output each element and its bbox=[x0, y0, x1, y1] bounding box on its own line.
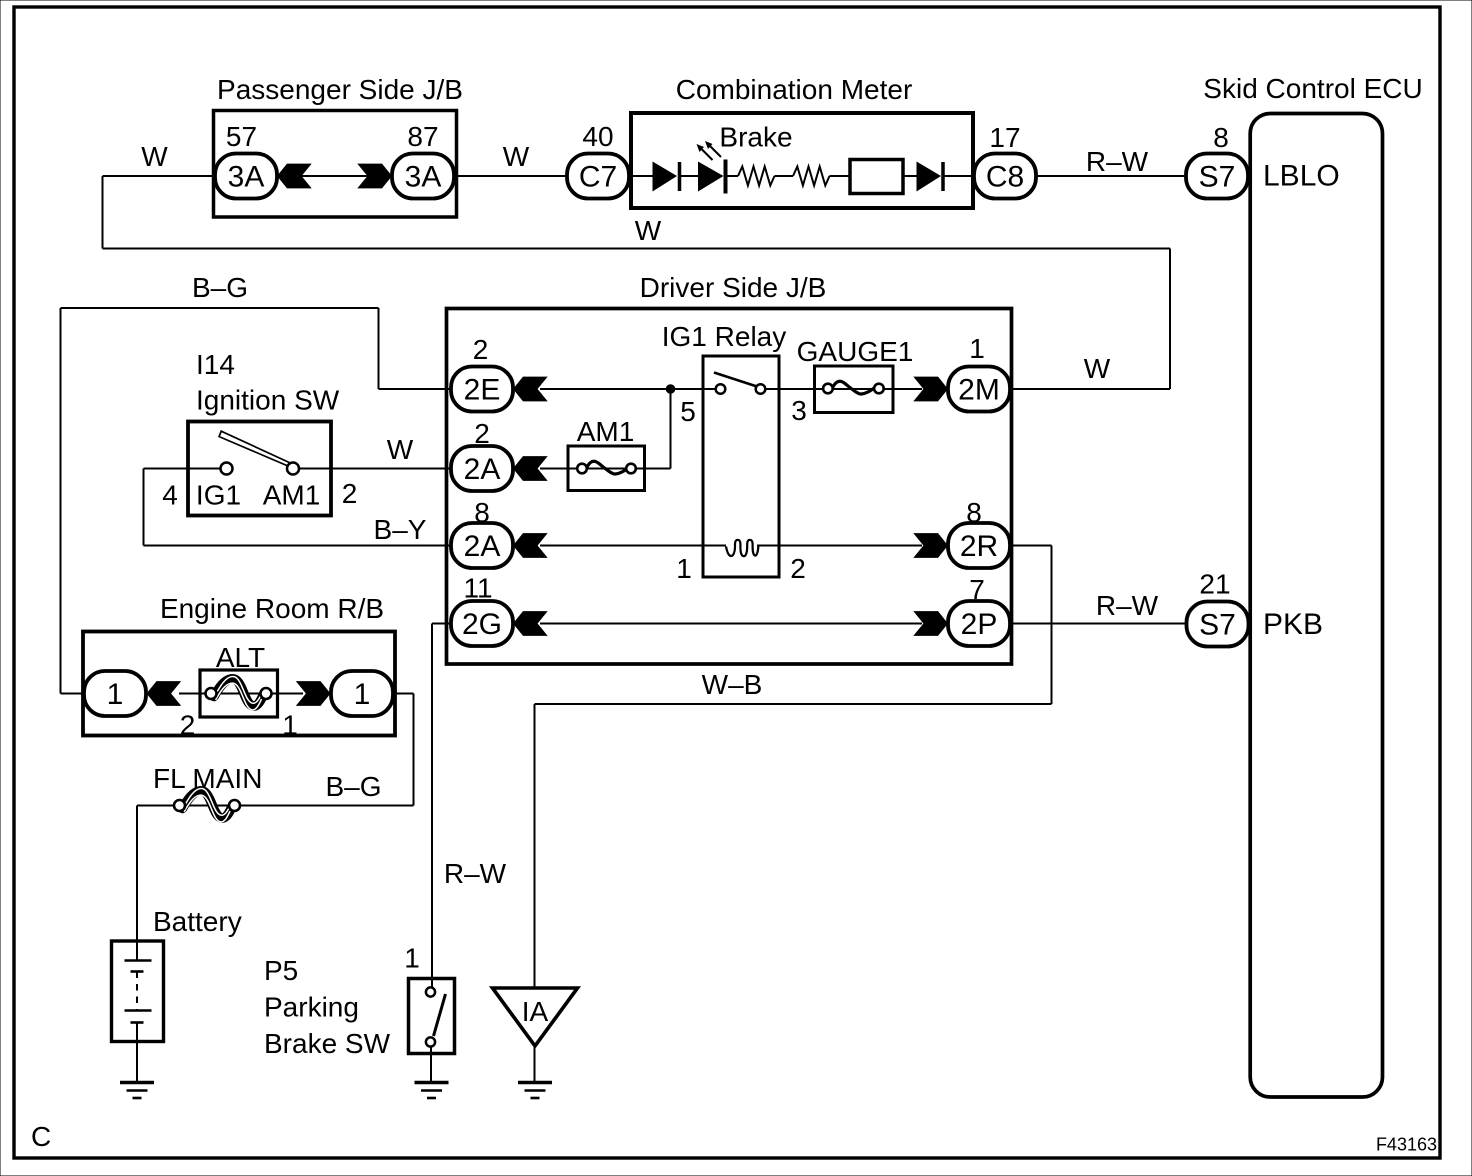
svg-text:1: 1 bbox=[676, 553, 692, 584]
junction node at pin5 feed bbox=[666, 385, 675, 394]
connector C7 bbox=[567, 154, 629, 199]
svg-text:AM1: AM1 bbox=[577, 416, 635, 447]
svg-text:11: 11 bbox=[463, 573, 492, 604]
fusible link ALT bbox=[200, 642, 278, 717]
wire B-Y: ignition IG1 to 2A-8 bbox=[144, 469, 452, 546]
svg-text:2A: 2A bbox=[464, 530, 501, 563]
svg-text:Driver Side J/B: Driver Side J/B bbox=[640, 272, 827, 303]
svg-text:Passenger Side J/B: Passenger Side J/B bbox=[217, 74, 463, 105]
svg-text:1: 1 bbox=[354, 678, 371, 711]
arrow into 2A-8 bbox=[513, 533, 548, 558]
svg-text:2: 2 bbox=[180, 710, 196, 741]
svg-text:Brake: Brake bbox=[719, 122, 792, 153]
wire C8 to S7 bbox=[1036, 175, 1186, 177]
svg-text:W: W bbox=[141, 141, 168, 172]
connector 2P bbox=[948, 601, 1010, 646]
svg-text:C7: C7 bbox=[579, 161, 617, 194]
svg-text:Ignition SW: Ignition SW bbox=[196, 385, 340, 416]
wire between 3A connectors bbox=[300, 175, 370, 177]
svg-text:GAUGE1: GAUGE1 bbox=[797, 336, 914, 367]
ECU box: Skid Control ECU bbox=[1203, 73, 1422, 1097]
ground connector IA bbox=[493, 988, 578, 1046]
svg-text:Combination Meter: Combination Meter bbox=[676, 74, 913, 105]
wire relay coil pin 2 to 2R bbox=[779, 545, 922, 547]
ground (parking brake) bbox=[415, 1083, 449, 1099]
svg-text:1: 1 bbox=[282, 710, 298, 741]
svg-text:40: 40 bbox=[582, 121, 613, 152]
svg-text:2: 2 bbox=[342, 478, 358, 509]
svg-text:2M: 2M bbox=[958, 374, 1000, 407]
battery bbox=[112, 906, 242, 1042]
connector 1 (engine room R/B left) bbox=[84, 671, 146, 716]
svg-text:1: 1 bbox=[404, 943, 420, 974]
wire W-B: 2R to IA ground connector bbox=[535, 546, 1052, 987]
svg-text:R–W: R–W bbox=[1096, 590, 1159, 621]
svg-text:21: 21 bbox=[1199, 569, 1230, 600]
arrow into 3A-57 bbox=[277, 164, 312, 189]
svg-text:S7: S7 bbox=[1199, 609, 1236, 642]
connector C8 bbox=[974, 154, 1036, 199]
svg-text:F43163: F43163 bbox=[1376, 1135, 1437, 1155]
connector 2E bbox=[451, 367, 513, 412]
wire R-W: 2G to parking brake switch bbox=[432, 624, 451, 988]
connector 2G bbox=[451, 601, 513, 646]
svg-text:ALT: ALT bbox=[216, 642, 265, 673]
svg-text:7: 7 bbox=[969, 574, 985, 605]
svg-text:5: 5 bbox=[680, 396, 696, 427]
brake lamp circuit inside combination meter bbox=[633, 122, 973, 194]
wire 2G to 2P inside J/B bbox=[540, 623, 922, 625]
wire battery to ground bbox=[136, 1023, 138, 1083]
ground (battery) bbox=[120, 1083, 154, 1099]
svg-text:57: 57 bbox=[226, 121, 257, 152]
svg-text:LBLO: LBLO bbox=[1263, 160, 1340, 193]
svg-text:IG1 Relay: IG1 Relay bbox=[662, 321, 787, 352]
svg-text:Battery: Battery bbox=[153, 906, 242, 937]
wire parking brake to ground bbox=[430, 1047, 432, 1083]
svg-text:2: 2 bbox=[790, 553, 806, 584]
svg-text:R–W: R–W bbox=[1086, 146, 1149, 177]
svg-text:Skid Control ECU: Skid Control ECU bbox=[1203, 73, 1422, 104]
svg-text:4: 4 bbox=[162, 480, 178, 511]
junction block: Driver Side J/B bbox=[447, 272, 1012, 664]
svg-text:3A: 3A bbox=[405, 161, 442, 194]
svg-text:2G: 2G bbox=[462, 608, 502, 641]
svg-text:Parking: Parking bbox=[264, 992, 359, 1023]
svg-text:B–Y: B–Y bbox=[374, 514, 427, 545]
svg-text:S7: S7 bbox=[1199, 161, 1236, 194]
ground (IA) bbox=[518, 1083, 552, 1099]
svg-text:W: W bbox=[503, 141, 530, 172]
svg-text:IG1: IG1 bbox=[196, 480, 241, 511]
connector 2M bbox=[948, 367, 1010, 412]
svg-text:2: 2 bbox=[474, 418, 490, 449]
svg-text:8: 8 bbox=[474, 497, 490, 528]
svg-text:P5: P5 bbox=[264, 955, 298, 986]
svg-text:17: 17 bbox=[989, 122, 1020, 153]
svg-text:IA: IA bbox=[522, 996, 549, 1027]
svg-text:R–W: R–W bbox=[444, 858, 507, 889]
wire 2E to IG1 relay pin 5 bbox=[540, 388, 703, 390]
svg-text:2P: 2P bbox=[961, 608, 998, 641]
svg-text:8: 8 bbox=[1213, 122, 1229, 153]
svg-text:1: 1 bbox=[969, 333, 985, 364]
wire 3A-87 to C7 bbox=[454, 175, 567, 177]
svg-text:2A: 2A bbox=[464, 453, 501, 486]
connector 1 (engine room R/B right) bbox=[331, 671, 393, 716]
svg-text:C8: C8 bbox=[986, 161, 1024, 194]
arrow into 2A bbox=[513, 456, 548, 481]
svg-text:3: 3 bbox=[791, 395, 807, 426]
svg-text:2: 2 bbox=[473, 334, 489, 365]
svg-text:8: 8 bbox=[966, 497, 982, 528]
svg-text:B–G: B–G bbox=[192, 272, 248, 303]
wire C7 to meter bbox=[626, 175, 633, 177]
wire relay pin 3 through GAUGE1 fuse to 2M bbox=[779, 388, 922, 390]
fuse AM1 bbox=[568, 416, 645, 491]
arrow into 2G bbox=[513, 611, 548, 636]
svg-text:87: 87 bbox=[407, 121, 438, 152]
svg-text:W: W bbox=[387, 434, 414, 465]
svg-text:W: W bbox=[1084, 353, 1111, 384]
arrow into connector 1 left bbox=[147, 681, 182, 706]
svg-text:C: C bbox=[31, 1121, 51, 1152]
connector 2A-8 bbox=[451, 523, 513, 568]
arrow into 3A-87 bbox=[357, 164, 392, 189]
arrow into 2R bbox=[913, 533, 948, 558]
connector S7 PKB bbox=[1187, 602, 1249, 647]
fusible link FL MAIN bbox=[153, 763, 262, 822]
svg-text:W: W bbox=[635, 215, 662, 246]
connector 3A pin 57 bbox=[215, 154, 277, 199]
component box: Combination Meter bbox=[631, 74, 973, 208]
svg-text:2E: 2E bbox=[464, 374, 501, 407]
junction block: Passenger Side J/B bbox=[214, 74, 463, 217]
svg-text:AM1: AM1 bbox=[263, 480, 321, 511]
wire B-G: engine room R/B to 2E bbox=[61, 308, 452, 694]
svg-text:2R: 2R bbox=[960, 530, 998, 563]
svg-text:PKB: PKB bbox=[1263, 608, 1323, 641]
arrow into 2P bbox=[913, 611, 948, 636]
wire R-W: 2P to S7 PKB bbox=[1011, 623, 1186, 625]
connector 2A bbox=[451, 446, 513, 491]
svg-text:I14: I14 bbox=[196, 349, 235, 380]
wire 2A-8 to relay coil pin 1 bbox=[540, 545, 703, 547]
svg-text:Brake SW: Brake SW bbox=[264, 1028, 391, 1059]
connector 2R bbox=[948, 523, 1010, 568]
wire W from 3A-57 left and long run to 2M bbox=[103, 176, 1171, 389]
svg-text:3A: 3A bbox=[228, 161, 265, 194]
wire W: ignition SW AM1 to 2A bbox=[144, 468, 452, 470]
wire 2A through AM1 fuse to junction bbox=[540, 389, 671, 469]
wire IA to ground bbox=[534, 1046, 536, 1082]
junction block: Engine Room R/B bbox=[83, 593, 395, 736]
connector S7 LBLO bbox=[1186, 154, 1248, 199]
svg-text:1: 1 bbox=[107, 678, 124, 711]
fuse GAUGE1 bbox=[797, 336, 914, 413]
arrow into connector 1 right bbox=[296, 681, 331, 706]
wires inside Engine Room R/B and to FL MAIN / battery bbox=[137, 694, 414, 960]
arrow into 2E bbox=[513, 377, 548, 402]
arrow into 2M bbox=[913, 377, 948, 402]
parking brake switch P5 bbox=[264, 955, 455, 1059]
connector 3A pin 87 bbox=[392, 154, 454, 199]
svg-text:W–B: W–B bbox=[702, 669, 763, 700]
svg-text:Engine Room R/B: Engine Room R/B bbox=[160, 593, 384, 624]
svg-text:B–G: B–G bbox=[325, 771, 381, 802]
ignition switch I14 bbox=[188, 349, 340, 516]
relay IG1 inside J/B bbox=[662, 321, 787, 577]
